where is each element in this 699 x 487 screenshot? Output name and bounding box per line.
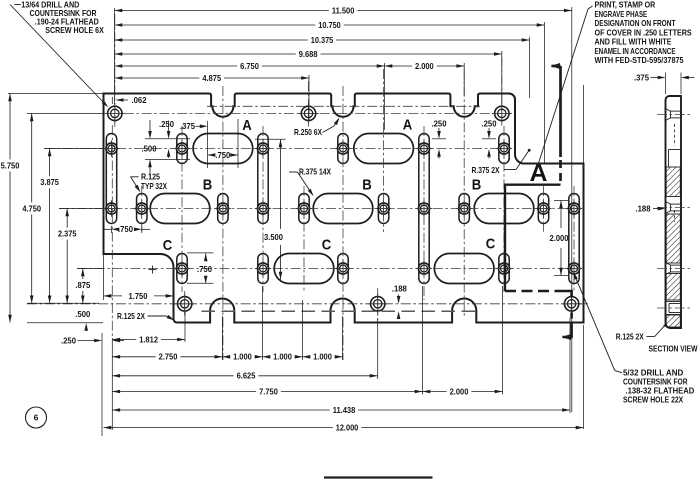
- svg-text:.750: .750: [118, 225, 133, 234]
- section hole profiles: [666, 109, 671, 112]
- bottom border segment: [324, 476, 433, 478]
- dimension .750 (inside stadium A1): [208, 153, 216, 157]
- svg-text:4.750: 4.750: [22, 204, 41, 213]
- leader print note: [588, 6, 593, 9]
- dimension 2.000 top: [385, 65, 412, 67]
- svg-text:.062: .062: [132, 96, 147, 105]
- slot column9 tall A-C: [419, 134, 429, 284]
- svg-text:1.812: 1.812: [139, 335, 158, 344]
- section bottom hole profile: [666, 301, 682, 303]
- screw hole 5/32 #2: [103, 200, 119, 216]
- svg-text:2.000: 2.000: [550, 234, 569, 243]
- svg-text:R.375 2X: R.375 2X: [472, 165, 500, 175]
- slot column11 C: [499, 254, 509, 284]
- slot column3 A: [177, 134, 187, 164]
- svg-text:A: A: [403, 117, 413, 134]
- centerline top hole row: [106, 112, 511, 114]
- centerline top notch row: [207, 105, 480, 107]
- dimension .750 (slot spacing, left): [111, 226, 113, 233]
- dimension 10.750: [115, 24, 316, 26]
- svg-text:10.375: 10.375: [311, 36, 334, 45]
- slot column5 tall A-B: [258, 134, 268, 224]
- svg-text:10.750: 10.750: [318, 21, 341, 30]
- svg-text:3.500: 3.500: [264, 233, 283, 242]
- centerline bottom hole row: [27, 303, 588, 305]
- thick arrow bottom: [562, 334, 572, 340]
- dimension 1.750: [104, 294, 112, 298]
- screw hole 5/32 #22: [566, 260, 582, 276]
- centerline hole T2: [308, 81, 310, 127]
- slot column11 A: [499, 134, 509, 164]
- svg-text:SCREW HOLE 22X: SCREW HOLE 22X: [623, 395, 684, 405]
- svg-text:6.625: 6.625: [237, 372, 256, 381]
- stadium cutout A1: [193, 134, 253, 164]
- dimension 1.000 a: [222, 356, 230, 358]
- svg-text:B: B: [472, 177, 482, 194]
- svg-text:2.750: 2.750: [159, 353, 178, 362]
- dimension 1.000 c: [303, 356, 311, 358]
- svg-text:.250: .250: [432, 120, 447, 129]
- screw hole 5/32 #16: [416, 260, 432, 276]
- stadium cutout A2: [354, 134, 414, 164]
- dimension 11.438: [112, 409, 329, 411]
- svg-text:.750: .750: [197, 265, 212, 274]
- dimension 12.000: [104, 427, 333, 429]
- slot column10 B: [459, 194, 469, 224]
- svg-text:.250: .250: [482, 120, 497, 129]
- dimension .750 (C slot, vertical): [187, 252, 214, 254]
- svg-text:.375: .375: [180, 122, 195, 131]
- screw hole 5/32 #11: [335, 140, 351, 156]
- countersink hole 13/64 #3: [492, 103, 512, 123]
- svg-text:.375: .375: [634, 73, 649, 82]
- dimension 2.375: [66, 209, 68, 228]
- screw hole 5/32 #7: [255, 140, 271, 156]
- dimension 2.000 (right slot): [554, 200, 568, 202]
- svg-text:.500: .500: [75, 310, 90, 319]
- centerline hole T3: [501, 57, 503, 127]
- dimension 9.688: [115, 53, 296, 55]
- svg-text:A: A: [242, 117, 252, 134]
- dimension 10.375: [115, 39, 308, 41]
- screw hole 5/32 #20: [535, 200, 551, 216]
- slot column12 B: [538, 194, 548, 224]
- screw hole 5/32 #6: [215, 200, 231, 216]
- svg-text:R.375 14X: R.375 14X: [299, 166, 331, 176]
- svg-text:1.000: 1.000: [233, 353, 252, 362]
- svg-text:1.750: 1.750: [129, 292, 148, 301]
- dimension .875: [82, 269, 84, 280]
- countersink hole 13/64 #6: [561, 294, 581, 314]
- svg-text:2.000: 2.000: [450, 387, 469, 396]
- dimension 2.000 bottom: [423, 391, 447, 393]
- centerline column1: [111, 125, 113, 338]
- screw hole 5/32 #12: [335, 260, 351, 276]
- screw hole 5/32 #21: [566, 200, 582, 216]
- slot column3 C: [177, 254, 187, 284]
- dimension 4.750: [31, 113, 33, 202]
- screw hole 5/32 #14: [416, 140, 432, 156]
- dimension 3.500: [255, 138, 286, 140]
- dimension 2.750: [112, 356, 155, 358]
- screw hole 5/32 #19: [496, 260, 512, 276]
- centerline column4/notch1: [222, 86, 224, 360]
- svg-text:B: B: [203, 177, 213, 194]
- slot column7 C: [338, 254, 348, 284]
- screw hole 5/32 #15: [416, 200, 432, 216]
- centerline hole T1: [114, 14, 116, 127]
- svg-text:TYP 32X: TYP 32X: [141, 181, 167, 191]
- centerline column12: [543, 186, 545, 232]
- screw hole 5/32 #8: [255, 200, 271, 216]
- svg-text:6: 6: [34, 413, 39, 423]
- svg-text:C: C: [322, 237, 332, 254]
- screw hole 5/32 #5: [174, 260, 190, 276]
- dimension .250 (right b): [488, 128, 490, 136]
- centerline column3: [181, 126, 183, 292]
- svg-text:R.250 6X: R.250 6X: [294, 127, 322, 137]
- svg-text:C: C: [486, 236, 496, 253]
- svg-text:5.750: 5.750: [1, 161, 20, 170]
- stadium cutout B1: [150, 194, 210, 224]
- section view outline: [666, 96, 682, 328]
- dimension 11.500: [115, 10, 329, 12]
- dimension 5.750: [9, 94, 11, 160]
- centerline row B: [59, 208, 579, 210]
- centerline column11: [503, 126, 505, 292]
- svg-text:.250: .250: [159, 120, 174, 129]
- countersink hole 13/64 #2: [298, 103, 318, 123]
- centerline column10/notch3: [463, 69, 465, 318]
- dimension 4.875: [115, 77, 200, 79]
- screw hole 5/32 #1: [103, 140, 119, 156]
- svg-text:7.750: 7.750: [259, 387, 278, 396]
- dimension 3.875: [49, 149, 51, 177]
- screw hole 5/32 #9: [255, 260, 271, 276]
- leader 13/64 note: [15, 4, 21, 6]
- slot column4 B: [218, 194, 228, 224]
- svg-text:SECTION VIEW: SECTION VIEW: [649, 344, 698, 354]
- centerline column13: [573, 186, 575, 292]
- svg-text:WITH FED-STD-595/37875: WITH FED-STD-595/37875: [595, 55, 684, 65]
- screw hole 5/32 #17: [456, 200, 472, 216]
- plate outline (cover plate profile with notches): [104, 94, 584, 323]
- svg-text:B: B: [362, 177, 372, 194]
- slot column8 B: [378, 194, 388, 224]
- svg-text:.750: .750: [215, 151, 230, 160]
- leader 5/32 note: [615, 371, 622, 373]
- centerline hole B1v: [184, 291, 186, 316]
- countersink hole 13/64 #5: [368, 294, 388, 314]
- screw hole 5/32 #10: [296, 200, 312, 216]
- svg-text:2.000: 2.000: [415, 62, 434, 71]
- slot column1 tall A-B: [106, 134, 116, 224]
- svg-text:.250: .250: [61, 336, 76, 345]
- position cross: [149, 269, 157, 271]
- stadium cutout B3: [474, 194, 534, 224]
- dimension 7.750: [112, 391, 256, 393]
- countersink hole 13/64 #1: [105, 103, 125, 123]
- centerline row A: [45, 148, 511, 150]
- screw hole 5/32 #18: [496, 140, 512, 156]
- stadium cutout C2: [434, 254, 494, 284]
- balloon item 6: [26, 407, 47, 428]
- extension lines: [114, 8, 116, 104]
- phase designation thick leader path (top): [559, 66, 562, 157]
- centerline column6: [303, 186, 305, 292]
- dimension .250 (A1 area): [168, 121, 170, 133]
- centerline column5: [262, 126, 264, 292]
- svg-text:11.438: 11.438: [333, 406, 356, 415]
- svg-text:12.000: 12.000: [336, 424, 359, 433]
- svg-text:2.375: 2.375: [58, 230, 77, 239]
- hidden groove line (bottom, dashed): [202, 310, 480, 312]
- svg-text:C: C: [163, 237, 173, 254]
- svg-text:3.875: 3.875: [40, 178, 59, 187]
- svg-text:.188: .188: [392, 285, 407, 294]
- svg-text:.188: .188: [636, 204, 651, 213]
- slot column7 A: [338, 134, 348, 164]
- section inner step lines: [669, 149, 682, 151]
- centerline column8: [383, 69, 385, 232]
- dimension 6.625: [112, 375, 233, 377]
- dimension 1.000 b: [263, 356, 271, 358]
- slot column2 B: [137, 194, 147, 224]
- slot column5 C: [258, 254, 268, 284]
- centerline row C: [77, 268, 580, 270]
- dimension .500: [149, 120, 151, 133]
- countersink hole 13/64 #4: [175, 294, 195, 314]
- thick arrow top: [551, 63, 561, 69]
- centerline column9: [423, 126, 425, 300]
- centerline hole B3v: [571, 292, 573, 316]
- svg-text:.875: .875: [75, 281, 90, 290]
- dimension .375 (section): [665, 73, 667, 95]
- svg-text:6.750: 6.750: [240, 62, 259, 71]
- dimension .062: [111, 97, 113, 104]
- svg-text:R.125: R.125: [141, 171, 160, 181]
- centerline column7/notch2: [342, 86, 344, 360]
- svg-text:11.500: 11.500: [332, 6, 355, 15]
- centerline column2: [141, 186, 143, 232]
- svg-text:9.688: 9.688: [299, 50, 318, 59]
- svg-text:.500: .500: [142, 145, 157, 154]
- dimension .250 (right a): [438, 128, 440, 136]
- slot column6 B: [299, 194, 309, 224]
- slot column13 tall B-C: [569, 194, 579, 284]
- svg-text:1.000: 1.000: [273, 353, 292, 362]
- svg-text:SCREW HOLE 6X: SCREW HOLE 6X: [45, 25, 104, 35]
- svg-text:4.875: 4.875: [202, 74, 221, 83]
- dimension 1.812: [112, 339, 136, 341]
- stadium cutout C1: [274, 254, 334, 284]
- centerline hole B2v: [377, 288, 379, 320]
- dimension 6.750: [115, 65, 238, 67]
- screw hole 5/32 #3: [134, 200, 150, 216]
- svg-text:R.125 2X: R.125 2X: [117, 311, 145, 321]
- svg-text:1.000: 1.000: [313, 353, 332, 362]
- screw hole 5/32 #13: [375, 200, 391, 216]
- stadium cutout B2: [313, 194, 373, 224]
- screw hole 5/32 #4: [174, 140, 190, 156]
- svg-text:R.125 2X: R.125 2X: [616, 332, 644, 342]
